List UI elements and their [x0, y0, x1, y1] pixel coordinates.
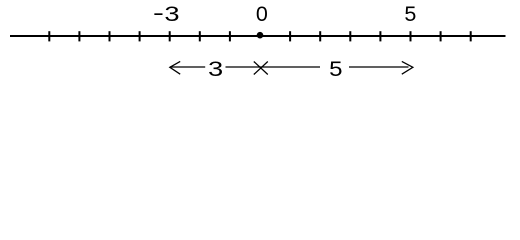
- svg-text:3: 3: [208, 58, 223, 82]
- svg-text:5: 5: [329, 56, 342, 80]
- svg-text:-: -: [153, 1, 164, 25]
- svg-text:0: 0: [256, 2, 268, 26]
- svg-text:3: 3: [164, 3, 179, 27]
- svg-text:5: 5: [404, 2, 416, 26]
